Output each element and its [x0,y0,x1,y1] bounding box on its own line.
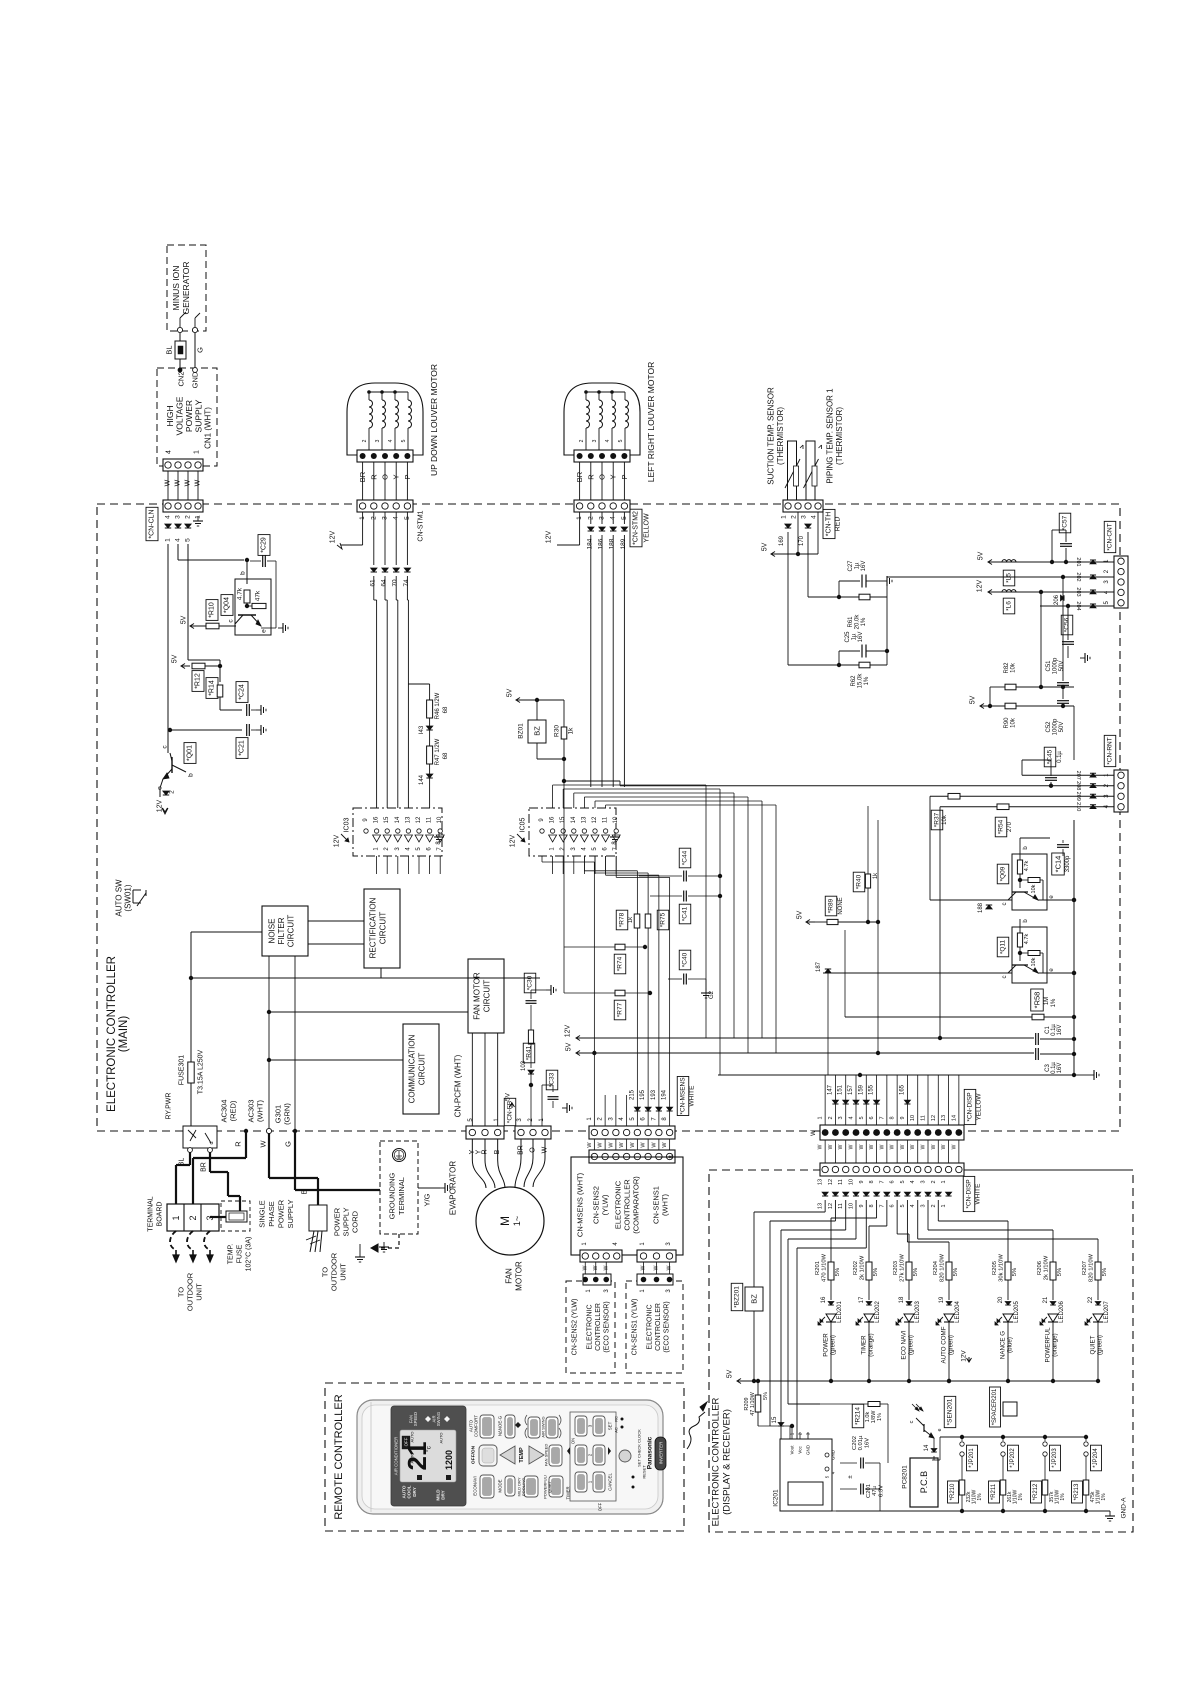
svg-text:4: 4 [910,1204,916,1207]
svg-text:3: 3 [175,515,182,519]
svg-text:R202: R202 [853,1261,859,1275]
svg-text:8: 8 [869,1204,875,1207]
svg-text:14: 14 [395,816,401,823]
svg-text:68: 68 [443,752,449,759]
svg-text:1: 1 [781,515,788,519]
svg-text:DRY: DRY [412,1487,417,1497]
svg-text:209: 209 [1075,792,1081,801]
svg-text:CN-SENS2: CN-SENS2 [592,1186,601,1224]
svg-text:W: W [185,479,192,486]
svg-text:N∆NOE-G: N∆NOE-G [498,1415,503,1436]
svg-text:0.01µ: 0.01µ [858,1435,864,1450]
svg-text:3: 3 [375,439,381,442]
svg-text:194: 194 [662,1089,668,1100]
svg-text:*CN-CLN: *CN-CLN [149,509,156,538]
svg-text:1: 1 [941,1180,947,1183]
svg-text:147: 147 [827,1084,833,1095]
svg-text:R82: R82 [1004,662,1010,674]
svg-text:14: 14 [951,1115,957,1121]
svg-text:1: 1 [818,1116,824,1119]
svg-text:CIRCUIT: CIRCUIT [379,912,388,945]
svg-text:3: 3 [838,1116,844,1119]
svg-text:13: 13 [818,1179,824,1185]
svg-text:ELECTRONIC CONTROLLER: ELECTRONIC CONTROLLER [106,956,118,1112]
svg-text:POWER: POWER [184,400,194,432]
svg-text:FUSE: FUSE [237,1244,244,1263]
svg-text:9: 9 [859,1180,865,1183]
svg-text:*CN-CNT: *CN-CNT [1107,523,1114,550]
svg-text:TO: TO [321,1267,330,1277]
svg-text:*R40: *R40 [856,874,863,889]
svg-text:LEFT RIGHT LOUVER MOTOR: LEFT RIGHT LOUVER MOTOR [646,362,656,482]
svg-text:11: 11 [838,1203,844,1209]
svg-text:18: 18 [899,1296,905,1303]
svg-text:5%: 5% [835,1268,841,1276]
svg-text:5: 5 [618,439,624,442]
svg-text:R62: R62 [851,675,857,687]
svg-text:(WHT): (WHT) [661,1193,670,1216]
svg-text:16V: 16V [861,561,867,572]
svg-text:(RED): (RED) [229,1100,238,1121]
svg-text:W: W [941,1144,947,1149]
svg-text:*R58: *R58 [1033,992,1042,1009]
svg-text:FAN: FAN [505,1268,514,1284]
svg-text:AC303: AC303 [247,1100,256,1123]
svg-text:*R78: *R78 [619,912,626,927]
svg-text:1%: 1% [1060,1493,1066,1501]
svg-text:13: 13 [405,816,411,823]
svg-text:7: 7 [879,1180,885,1183]
svg-text:CIRCUIT: CIRCUIT [418,1053,427,1086]
svg-text:*BZ201: *BZ201 [734,1286,741,1308]
svg-text:COMFORT: COMFORT [473,1415,478,1437]
svg-text:SPEED: SPEED [413,1412,418,1426]
svg-text:*R75: *R75 [660,912,667,927]
svg-text:(COMPARATOR): (COMPARATOR) [632,1176,641,1234]
svg-text:LED204: LED204 [955,1300,961,1322]
svg-text:16: 16 [821,1296,827,1303]
svg-text:Vcc: Vcc [798,1446,803,1454]
svg-text:8: 8 [890,1116,896,1119]
svg-text:(MAIN): (MAIN) [118,1016,130,1053]
svg-text:2k 1/10W: 2k 1/10W [859,1255,865,1280]
svg-text:W: W [165,479,172,486]
svg-text:*R37: *R37 [934,812,941,827]
svg-text:*CN-DISP: *CN-DISP [967,1092,974,1121]
svg-text:5V: 5V [505,1092,512,1101]
svg-text:W: W [879,1144,885,1149]
svg-text:1k: 1k [628,916,634,923]
svg-text:10: 10 [437,816,443,823]
svg-text:4.7k: 4.7k [1024,861,1030,872]
svg-text:*R14: *R14 [209,680,216,696]
svg-text:TERMINAL: TERMINAL [397,1177,406,1215]
svg-text:(YLW): (YLW) [601,1194,610,1215]
svg-text:*SPACER201: *SPACER201 [992,1388,998,1425]
svg-text:1k: 1k [568,727,575,735]
svg-text:*R54: *R54 [998,819,1005,834]
svg-text:9: 9 [900,1116,906,1119]
svg-text:5%: 5% [953,1268,959,1276]
svg-text:10k: 10k [1011,662,1017,673]
svg-text:61: 61 [369,579,376,587]
svg-text:20: 20 [998,1296,1004,1303]
svg-text:CN-STM1: CN-STM1 [418,510,425,541]
svg-text:102°C (3A): 102°C (3A) [245,1237,253,1272]
svg-text:POWER: POWER [823,1333,830,1357]
svg-text:YELLOW: YELLOW [644,513,651,543]
svg-text:13: 13 [581,816,587,823]
svg-text:*C30: *C30 [527,975,534,990]
svg-text:NANCE G: NANCE G [1000,1331,1007,1359]
svg-text:UNIT: UNIT [195,1283,204,1301]
svg-text:12: 12 [828,1203,834,1209]
svg-text:16V: 16V [864,1438,870,1448]
svg-text:50V: 50V [1059,722,1065,733]
svg-text:5%: 5% [913,1268,919,1276]
svg-text:BR: BR [201,1162,208,1172]
svg-text:TERMINAL: TERMINAL [148,1196,155,1232]
svg-text:R: R [586,474,595,480]
svg-text:COOLING: COOLING [521,1478,526,1496]
svg-text:*C41: *C41 [682,906,689,921]
svg-text:c: c [909,1420,915,1423]
svg-text:e: e [937,1428,943,1431]
svg-text:820 1/10W: 820 1/10W [1088,1253,1094,1282]
svg-text:1%: 1% [861,617,867,626]
svg-text:UP DOWN LOUVER MOTOR: UP DOWN LOUVER MOTOR [429,364,439,476]
svg-text:5: 5 [185,538,192,542]
svg-text:B: B [300,1189,309,1194]
svg-text:170: 170 [799,535,805,546]
svg-text:R46 1/2W: R46 1/2W [435,692,441,719]
svg-text:CANCEL: CANCEL [608,1473,613,1491]
svg-text:SET CHECK CLOCK: SET CHECK CLOCK [637,1429,642,1467]
svg-text:W: W [654,1265,660,1270]
svg-text:11: 11 [427,816,433,823]
svg-text:W: W [630,1142,636,1148]
svg-text:CONTROLLER: CONTROLLER [623,1179,632,1231]
svg-text:Vout: Vout [790,1445,795,1455]
svg-text:MODE: MODE [498,1479,503,1492]
svg-text:13: 13 [818,1203,824,1209]
svg-text:165: 165 [899,1084,905,1095]
svg-text:M: M [498,1216,512,1226]
svg-text:5: 5 [900,1180,906,1183]
svg-text:*R41: *R41 [526,1045,533,1060]
svg-text:W: W [259,1140,268,1148]
svg-text:5V: 5V [978,551,985,560]
svg-text:11: 11 [838,1179,844,1185]
svg-text:(blue): (blue) [1007,1337,1014,1353]
svg-text:20.0k: 20.0k [855,614,861,630]
svg-text:*CN-STM2: *CN-STM2 [633,511,640,545]
svg-text:10k: 10k [1031,957,1037,966]
svg-text:14: 14 [924,1444,930,1451]
svg-text:W: W [603,1265,609,1270]
svg-text:12V: 12V [330,530,337,543]
svg-text:*Q11: *Q11 [1000,939,1007,954]
svg-text:1%: 1% [877,1413,883,1421]
svg-text:b: b [240,571,247,575]
svg-text:155: 155 [869,1084,875,1095]
svg-text:5V: 5V [797,910,804,919]
svg-text:MOTOR: MOTOR [515,1261,524,1291]
svg-text:103: 103 [521,1060,527,1071]
svg-text:206: 206 [1054,594,1060,605]
svg-text:2: 2 [828,1116,834,1119]
svg-text:12: 12 [828,1179,834,1185]
svg-text:QUIET: QUIET [1090,1335,1097,1354]
svg-text:(ECO SENSOR): (ECO SENSOR) [664,1301,671,1352]
svg-text:W: W [859,1144,865,1149]
svg-text:3: 3 [592,439,598,442]
svg-text:WHITE: WHITE [975,1183,982,1205]
svg-text:CN-SENS1: CN-SENS1 [652,1186,661,1224]
svg-text:ECONAVI: ECONAVI [473,1476,478,1495]
svg-text:LED205: LED205 [1014,1300,1020,1322]
svg-text:GND: GND [831,1449,836,1460]
svg-text:169: 169 [779,535,785,546]
svg-text:5V: 5V [970,695,977,704]
svg-text:*CN-TH: *CN-TH [826,512,833,537]
svg-text:5V: 5V [181,615,188,624]
svg-text:*R89: *R89 [828,898,835,913]
svg-text:e: e [261,629,268,633]
svg-text:*CN-RNT: *CN-RNT [1107,737,1114,764]
svg-text:R: R [234,1141,243,1147]
svg-text:12V: 12V [977,579,984,592]
svg-text:(green): (green) [948,1335,955,1355]
svg-text:RC: RC [614,1416,619,1422]
svg-text:GND: GND [191,371,200,388]
svg-text:R203: R203 [893,1261,899,1275]
svg-text:1: 1 [941,1204,947,1207]
svg-text:189: 189 [620,538,627,549]
svg-text:IC05: IC05 [520,818,527,833]
svg-text:LED203: LED203 [915,1300,921,1322]
svg-text:*C40: *C40 [682,952,689,967]
svg-text:GND-A: GND-A [1121,1497,1128,1519]
svg-text:(orange): (orange) [868,1333,875,1356]
svg-text:BR: BR [358,471,367,482]
svg-text:10k: 10k [1031,884,1037,893]
svg-text:IC03: IC03 [344,818,351,833]
svg-text:*Q01: *Q01 [187,745,194,761]
svg-text:COMMUNICATION: COMMUNICATION [408,1034,417,1103]
svg-text:159: 159 [858,1084,864,1095]
svg-text:SUPPLY: SUPPLY [342,1207,351,1236]
svg-text:R61: R61 [848,616,854,628]
svg-text:203: 203 [1075,587,1081,596]
svg-text:12V: 12V [565,1024,572,1037]
svg-text:193: 193 [651,1089,657,1100]
svg-text:*C14: *C14 [1054,856,1063,873]
svg-text:10k: 10k [942,814,948,825]
svg-text:74: 74 [403,579,410,587]
svg-text:b: b [188,773,195,777]
svg-text:21: 21 [1043,1296,1049,1303]
svg-text:CN-SENS1 (YLW): CN-SENS1 (YLW) [632,1299,639,1356]
svg-text:1: 1 [194,450,201,454]
svg-text:NONE: NONE [838,897,844,914]
svg-text:TIMER: TIMER [861,1335,868,1355]
svg-text:12: 12 [592,816,598,823]
svg-text:6.3V: 6.3V [878,1485,884,1497]
svg-text:*R74: *R74 [617,956,624,971]
svg-text:CN-SENS2 (YLW): CN-SENS2 (YLW) [572,1299,579,1356]
svg-text:1%: 1% [977,1493,983,1501]
svg-text:3: 3 [801,515,808,519]
svg-text:4: 4 [166,450,173,454]
svg-text:4: 4 [605,439,611,442]
svg-text:11: 11 [603,816,609,823]
svg-text:R: R [369,474,378,480]
svg-text:*R210: *R210 [950,1483,956,1500]
svg-text:2: 2 [579,439,585,442]
svg-text:10: 10 [910,1115,916,1121]
svg-text:LED201: LED201 [837,1300,843,1322]
svg-text:16: 16 [374,816,380,823]
svg-text:16V: 16V [1057,1025,1063,1036]
svg-text:1~: 1~ [512,1216,522,1226]
svg-text:4: 4 [175,538,182,542]
svg-text:W: W [608,1142,614,1148]
svg-text:*C44: *C44 [682,850,689,865]
svg-text:C51: C51 [1046,660,1052,672]
svg-text:ECO NAVI: ECO NAVI [901,1330,908,1359]
svg-text:47µ: 47µ [872,1485,878,1495]
svg-text:3300p: 3300p [1065,855,1071,872]
svg-text:W: W [641,1265,647,1270]
svg-text:(green): (green) [908,1335,915,1355]
svg-text:SUCTION TEMP. SENSOR: SUCTION TEMP. SENSOR [767,387,776,485]
svg-text:4: 4 [910,1180,916,1183]
svg-text:W: W [582,1265,588,1270]
svg-text:22: 22 [1088,1296,1094,1303]
svg-text:O: O [598,474,607,480]
svg-text:W: W [651,1142,657,1148]
svg-text:2: 2 [362,439,368,442]
svg-text:OFF/ON: OFF/ON [471,1445,477,1464]
svg-text:FUSE301: FUSE301 [179,1055,186,1085]
svg-text:OFF: OFF [598,1502,603,1511]
svg-text:5: 5 [900,1204,906,1207]
svg-text:W: W [195,479,202,486]
svg-text:(orange): (orange) [1052,1333,1059,1356]
svg-text:*L6: *L6 [1006,601,1013,611]
svg-text:G301: G301 [274,1105,283,1123]
svg-text:GND: GND [806,1444,811,1455]
svg-text:G: G [196,347,205,353]
svg-text:W: W [910,1144,916,1149]
svg-text:Y: Y [609,474,618,479]
svg-text:AIR SWING: AIR SWING [541,1416,546,1437]
svg-text:OUTDOOR: OUTDOOR [186,1272,195,1311]
svg-text:*JP204: *JP204 [1093,1448,1099,1468]
svg-text:1%: 1% [1051,998,1057,1007]
svg-text:W: W [818,1144,824,1149]
svg-text:W: W [828,1144,834,1149]
svg-text:YELLOW: YELLOW [976,1093,983,1121]
svg-text:(DISPLAY & RECEIVER): (DISPLAY & RECEIVER) [722,1409,733,1515]
svg-text:*R12: *R12 [195,673,202,689]
svg-text:12V: 12V [510,834,517,847]
svg-text:BZ: BZ [533,726,542,736]
svg-text:VOLTAGE: VOLTAGE [175,396,185,435]
svg-text:W: W [838,1144,844,1149]
svg-text:2: 2 [931,1204,937,1207]
svg-text:6: 6 [869,1116,875,1119]
svg-text:W: W [598,1142,604,1148]
svg-text:NOISE: NOISE [268,919,277,944]
svg-text:5%: 5% [1102,1268,1108,1276]
svg-text:(WHT): (WHT) [256,1099,265,1122]
svg-text:AUTO: AUTO [410,1431,415,1442]
svg-text:SUPPLY: SUPPLY [194,399,204,432]
svg-text:Y/G: Y/G [423,1193,432,1206]
svg-text:HIGH: HIGH [165,405,175,426]
svg-text:BR: BR [575,471,584,482]
svg-text:R201: R201 [815,1261,821,1275]
svg-text:CORD: CORD [351,1210,360,1233]
svg-text:4: 4 [849,1116,855,1119]
svg-text:CIRCUIT: CIRCUIT [483,980,492,1013]
svg-text:CIRCUIT: CIRCUIT [287,915,296,948]
svg-text:FAN MOTOR: FAN MOTOR [473,972,482,1020]
svg-text:PIPING TEMP. SENSOR 1: PIPING TEMP. SENSOR 1 [826,388,835,484]
svg-text:16: 16 [550,816,556,823]
svg-text:MINUS ION: MINUS ION [171,266,181,311]
svg-text:7: 7 [879,1116,885,1119]
svg-text:POWERFUL: POWERFUL [1045,1327,1052,1363]
svg-text:C201: C201 [866,1484,872,1498]
svg-text:LED206: LED206 [1059,1300,1065,1322]
svg-text:RECTIFICATION: RECTIFICATION [369,897,378,958]
svg-text:W: W [667,1265,673,1270]
svg-text:1: 1 [171,1215,181,1220]
svg-text:GROUNDING: GROUNDING [388,1173,397,1220]
svg-text:12V: 12V [157,799,164,812]
svg-text:W: W [811,1130,817,1136]
svg-text:*L5: *L5 [1006,573,1013,583]
svg-text:R90: R90 [1004,717,1010,729]
svg-text:I43: I43 [419,725,425,734]
svg-text:G2: G2 [709,990,715,999]
svg-text:W: W [869,1144,875,1149]
svg-text:10: 10 [613,816,619,823]
svg-text:LED202: LED202 [875,1300,881,1322]
svg-text:1000p: 1000p [1053,657,1059,674]
svg-text:188: 188 [609,538,616,549]
svg-text:*CN-MSENS: *CN-MSENS [680,1077,687,1115]
svg-text:5V: 5V [727,1369,734,1378]
svg-text:R30: R30 [554,725,561,737]
svg-text:(GRN): (GRN) [283,1103,292,1125]
svg-text:5V: 5V [507,688,514,697]
svg-text:*JP202: *JP202 [1010,1448,1016,1468]
svg-text:204: 204 [1075,601,1081,610]
svg-text:*Q09: *Q09 [1000,866,1007,881]
svg-text:4.7k: 4.7k [1024,934,1030,945]
svg-text:CONTROLLER: CONTROLLER [655,1303,662,1351]
svg-text:CN2: CN2 [177,371,186,386]
svg-text:9: 9 [859,1204,865,1207]
svg-text:AIR CONDITIONER: AIR CONDITIONER [394,1437,399,1475]
svg-text:5%: 5% [1012,1268,1018,1276]
svg-text:208: 208 [1075,781,1081,790]
svg-text:3: 3 [921,1180,927,1183]
